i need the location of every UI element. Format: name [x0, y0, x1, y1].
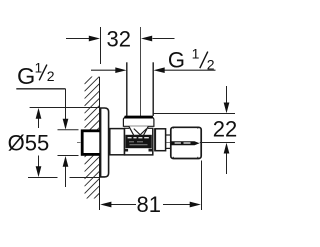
riser pipe: [126, 62, 128, 116]
corner marks: [149, 149, 153, 152]
bonnet cap: [155, 129, 166, 151]
svg-text:81: 81: [137, 192, 161, 217]
rosette (wall flange): [101, 108, 109, 177]
dim 32: [66, 27, 175, 64]
svg-text:Ø55: Ø55: [8, 130, 50, 155]
svg-text:G: G: [17, 63, 35, 89]
neck to handle: [166, 134, 171, 136]
inlet shank (into wall): [82, 131, 101, 155]
dim 81: [111, 161, 202, 211]
shank top ext line: [58, 129, 79, 131]
compression nut: [123, 116, 153, 126]
svg-text:1: 1: [35, 61, 43, 76]
logo band (dark): [125, 135, 151, 148]
centerline horizontal axis: [77, 142, 171, 144]
shank lower arrow: [65, 166, 67, 188]
svg-text:2: 2: [47, 68, 55, 84]
funnel transition: [129, 126, 148, 135]
dim 22: [154, 86, 236, 174]
svg-text:32: 32: [106, 27, 130, 52]
body section A: [110, 129, 125, 155]
svg-text:22: 22: [213, 116, 237, 141]
svg-text:1: 1: [192, 46, 200, 62]
riser centerline: [140, 27, 142, 133]
handle knob: [171, 127, 201, 158]
handle slot lens: [171, 141, 200, 145]
dim O55: [28, 108, 100, 178]
svg-text:G: G: [168, 47, 185, 72]
body center block: [125, 128, 153, 155]
wall face line: [99, 77, 101, 210]
